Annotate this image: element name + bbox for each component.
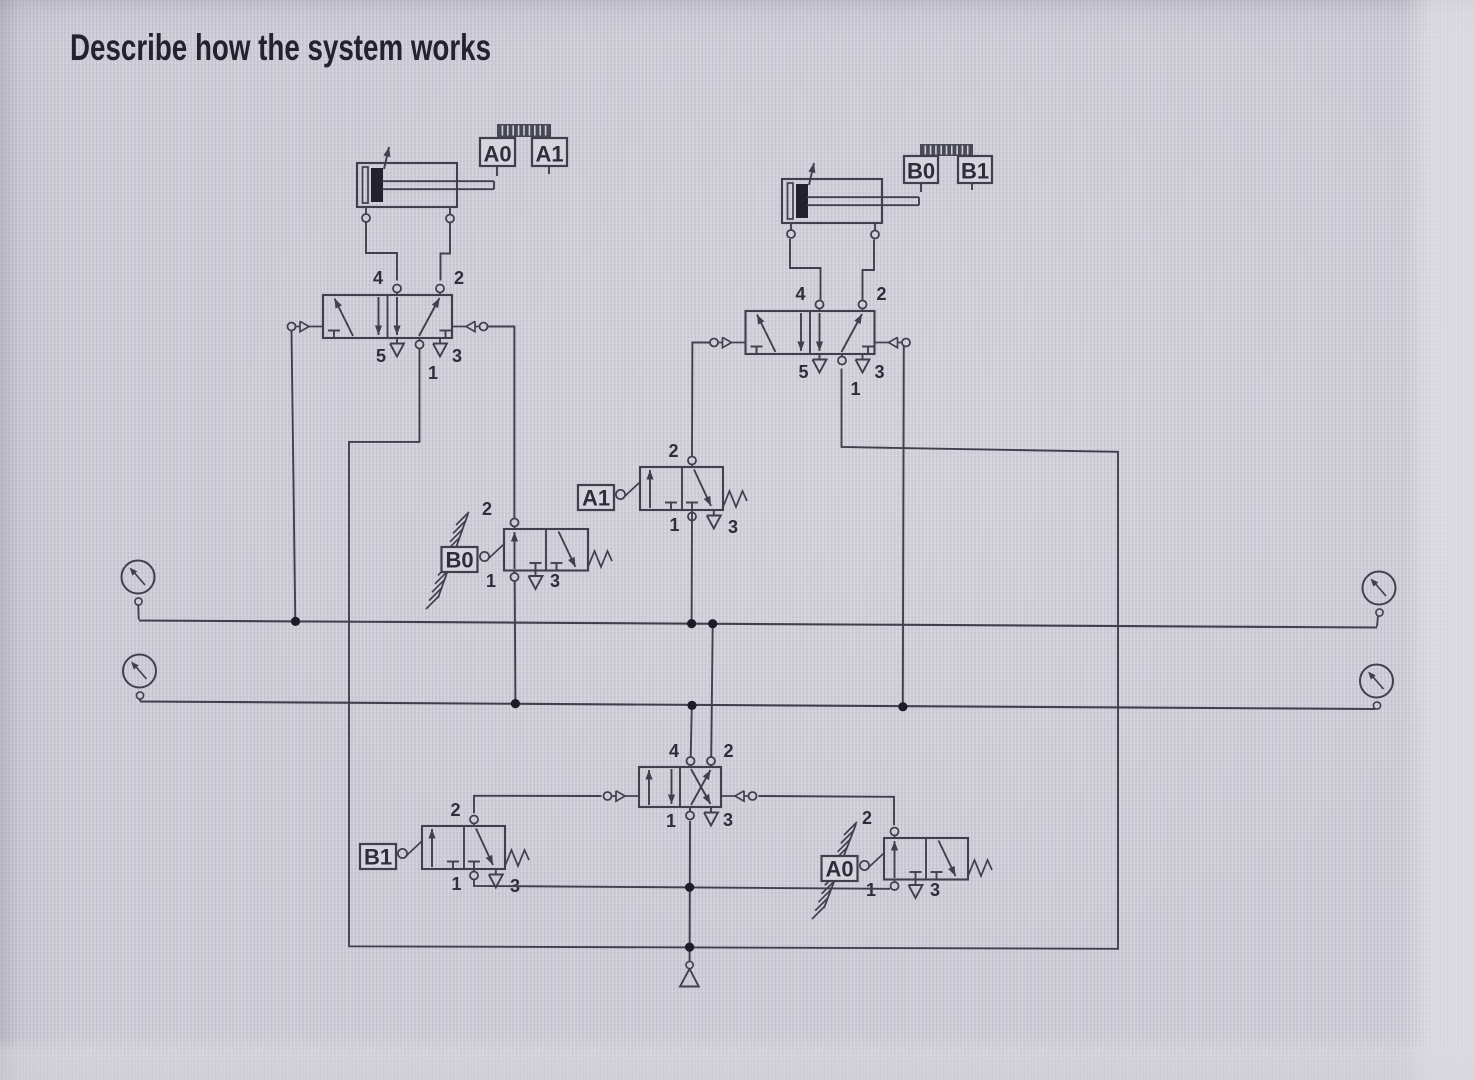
svg-text:A1: A1 — [535, 142, 563, 167]
svg-text:1: 1 — [666, 811, 676, 831]
svg-text:B0: B0 — [907, 159, 935, 184]
svg-text:2: 2 — [723, 741, 733, 761]
svg-text:2: 2 — [450, 800, 460, 820]
svg-text:2: 2 — [876, 284, 886, 304]
svg-text:5: 5 — [798, 362, 808, 382]
svg-text:3: 3 — [728, 517, 738, 537]
svg-text:1: 1 — [669, 515, 679, 535]
svg-text:1: 1 — [428, 363, 438, 383]
svg-text:4: 4 — [669, 741, 679, 761]
svg-text:B1: B1 — [961, 159, 989, 184]
svg-text:3: 3 — [723, 810, 733, 830]
svg-text:3: 3 — [930, 880, 940, 900]
svg-text:3: 3 — [452, 346, 462, 366]
svg-text:3: 3 — [550, 571, 560, 591]
svg-text:B1: B1 — [364, 845, 392, 870]
svg-text:2: 2 — [862, 808, 872, 828]
svg-text:2: 2 — [482, 499, 492, 519]
svg-text:A1: A1 — [582, 486, 610, 511]
svg-text:1: 1 — [486, 571, 496, 591]
svg-text:1: 1 — [866, 880, 876, 900]
svg-text:3: 3 — [874, 362, 884, 382]
svg-text:2: 2 — [668, 441, 678, 461]
svg-text:5: 5 — [376, 346, 386, 366]
svg-text:1: 1 — [850, 379, 860, 399]
svg-text:4: 4 — [373, 268, 383, 288]
svg-text:A0: A0 — [483, 142, 511, 167]
svg-text:A0: A0 — [825, 857, 853, 882]
svg-text:4: 4 — [795, 284, 805, 304]
svg-text:2: 2 — [454, 268, 464, 288]
svg-text:B0: B0 — [445, 548, 473, 573]
svg-text:1: 1 — [451, 874, 461, 894]
